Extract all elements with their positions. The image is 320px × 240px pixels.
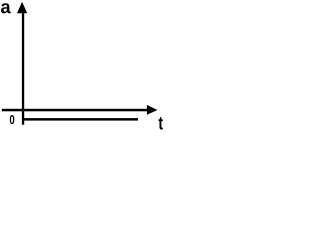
a-axis arrowhead	[17, 2, 27, 13]
t-axis arrowhead	[147, 105, 158, 115]
graph line: constant negative acceleration level	[23, 118, 139, 121]
axis label a	[1, 3, 11, 13]
vertical a-axis shaft	[22, 10, 24, 125]
origin label 0	[10, 115, 15, 124]
horizontal t-axis shaft	[2, 109, 149, 112]
axis label t	[159, 117, 163, 129]
